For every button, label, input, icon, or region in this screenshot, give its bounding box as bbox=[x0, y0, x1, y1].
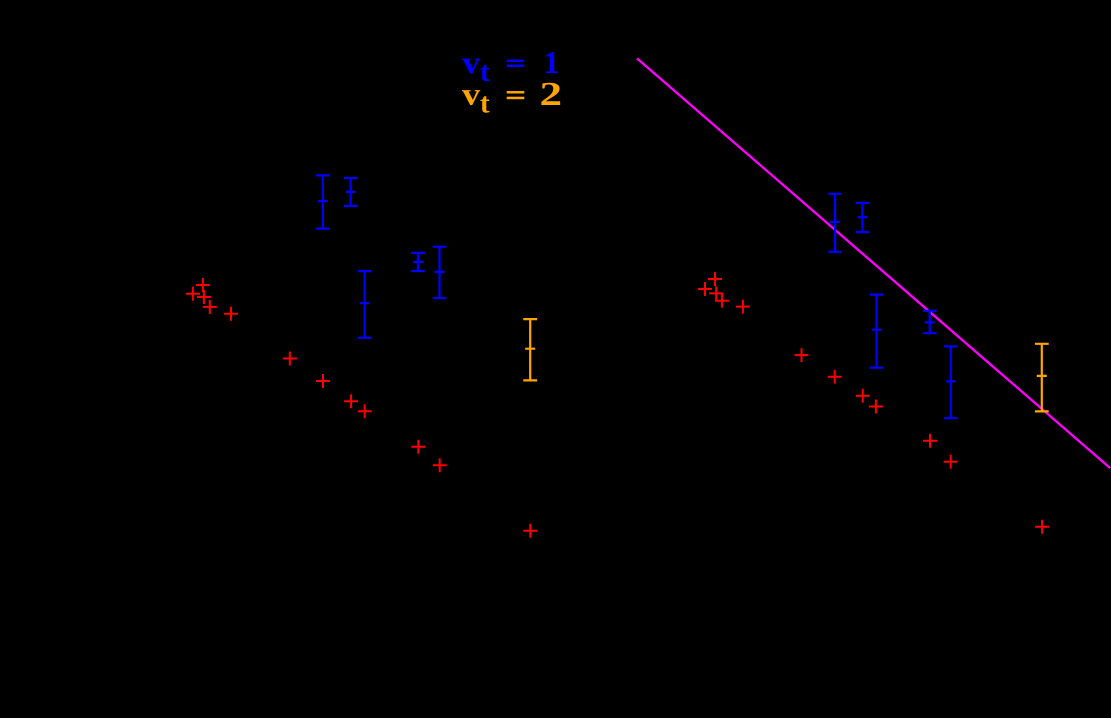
red plus data point 4 at (209.8,306.9) bbox=[203, 300, 217, 314]
blue error bar 7 at x=862.4 bbox=[856, 203, 870, 232]
red plus data point 3 at (203.9,297.0) bbox=[197, 290, 211, 304]
blue error bar 6 at x=835.1 bbox=[828, 194, 842, 252]
red plus data point 6 at (289.8,358.5) bbox=[283, 352, 297, 366]
red plus data point 11 at (439.7,465.2) bbox=[433, 458, 447, 472]
blue error bar 9 at x=929.7 bbox=[923, 311, 937, 333]
svg-text:t: t bbox=[480, 56, 490, 88]
blue error bar 4 at x=417.9 bbox=[411, 253, 425, 271]
red plus data point 20 at (862.7,395.8) bbox=[856, 389, 870, 403]
svg-text:2: 2 bbox=[540, 76, 563, 113]
svg-text:1: 1 bbox=[544, 44, 560, 80]
red plus data point 7 at (323.0,381.0) bbox=[316, 374, 330, 388]
red plus data point 15 at (716.2,293.4) bbox=[709, 286, 723, 300]
red plus data point 5 at (231.0,313.8) bbox=[224, 307, 238, 321]
red plus data point 10 at (418.3,446.7) bbox=[411, 440, 425, 454]
red plus data point 16 at (721.9,300.7) bbox=[715, 294, 729, 308]
red plus data point 19 at (834.7,376.8) bbox=[828, 370, 842, 384]
orange error bar 2 at x=1041.8 bbox=[1035, 344, 1049, 412]
svg-text:t: t bbox=[480, 88, 490, 120]
red plus data point 21 at (875.9,406.5) bbox=[869, 400, 883, 414]
red plus data point 8 at (351.1,401.3) bbox=[344, 394, 358, 408]
red plus data point 12 at (530.3,530.7) bbox=[523, 524, 537, 538]
red plus data point 22 at (930.0,440.7) bbox=[923, 434, 937, 448]
blue error bar 10 at x=950.8 bbox=[944, 346, 958, 418]
red plus data point 1 at (202.9,285.0) bbox=[196, 278, 210, 292]
red plus data point 14 at (705.0,289.0) bbox=[698, 282, 712, 296]
red plus data point 9 at (364.7,411.3) bbox=[358, 404, 372, 418]
orange error bar 1 at x=530.2 bbox=[523, 319, 537, 380]
blue error bar 3 at x=364.6 bbox=[358, 271, 372, 338]
red plus data point 23 at (950.7,461.8) bbox=[944, 455, 958, 469]
svg-text:v: v bbox=[462, 76, 480, 112]
blue error bar 2 at x=350.7 bbox=[344, 178, 358, 206]
red plus data point 17 at (742.9,306.6) bbox=[736, 300, 750, 314]
red plus data point 18 at (801.5,355.1) bbox=[795, 348, 809, 362]
red plus data point 13 at (715.0,279.0) bbox=[708, 272, 722, 286]
red plus data point 2 at (192.9,293.8) bbox=[186, 287, 200, 301]
blue error bar 8 at x=876.5 bbox=[870, 295, 884, 368]
magenta model line bbox=[637, 58, 1110, 468]
blue error bar 1 at x=322.9 bbox=[316, 175, 330, 228]
blue error bar 5 at x=439.5 bbox=[433, 247, 447, 299]
red plus data point 24 at (1042.1,526.8) bbox=[1035, 520, 1049, 534]
